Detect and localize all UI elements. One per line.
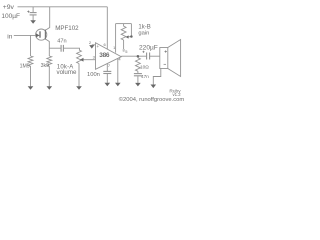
wire rail to pin 6 — [106, 7, 108, 49]
svg-text:10Ω: 10Ω — [140, 64, 149, 69]
wire R1 to ground — [30, 66, 32, 86]
wire gain pot bottom stub to pin 8 — [123, 40, 125, 49]
wire gate node down to R1 — [30, 35, 32, 56]
svg-text:2: 2 — [89, 40, 92, 45]
resistor R1 1M5 — [28, 56, 33, 66]
transistor Q1 MPF102 body — [36, 29, 47, 40]
wire speaker return — [153, 69, 161, 85]
wiper arrow VR2 — [126, 35, 129, 38]
svg-text:100n: 100n — [87, 72, 100, 78]
wire R2 to ground — [48, 66, 50, 86]
ground under pin 4 — [115, 83, 121, 87]
plus mark C4 — [142, 51, 144, 53]
resistor R3 10ohm — [136, 58, 141, 71]
wire C2 to volume pot — [64, 48, 80, 50]
wire output node down to R3 — [137, 56, 139, 58]
ground under VR1 — [76, 86, 82, 90]
wire source node horizontal — [49, 47, 61, 49]
wire Q1 source — [45, 39, 49, 48]
svg-text:100µF: 100µF — [1, 13, 20, 20]
wire C1 to ground — [32, 15, 34, 20]
svg-text:47n: 47n — [141, 74, 149, 79]
svg-text:+9v: +9v — [3, 4, 15, 11]
transistor Q1 channel bar — [44, 30, 46, 40]
svg-text:+: + — [97, 44, 100, 49]
potentiometer VR1 10k-A volume — [77, 50, 82, 64]
gate arrow Q1 — [36, 33, 40, 37]
speaker SP1 frame — [160, 48, 168, 69]
wire C5 to ground — [137, 76, 139, 83]
speaker terminal minus — [164, 63, 166, 65]
wire C4 to speaker — [150, 55, 160, 57]
svg-text:5: 5 — [125, 49, 128, 54]
svg-text:volume: volume — [57, 69, 78, 76]
wire pin 2 ground stub — [92, 44, 96, 46]
ground under C3 — [105, 83, 111, 87]
wire VR1 to ground — [78, 64, 80, 87]
node dot gain wiper — [130, 35, 133, 38]
svg-text:220µF: 220µF — [139, 44, 158, 51]
wire pin 7 stub — [106, 64, 108, 72]
svg-text:47n: 47n — [57, 39, 66, 45]
wiper arrow VR1 — [80, 58, 84, 62]
svg-text:6: 6 — [104, 42, 107, 47]
wire gain pot top stub — [123, 24, 125, 27]
wire R3 to C5 — [137, 71, 139, 73]
ground at pin 2 — [89, 45, 94, 49]
wire +9V rail — [18, 6, 108, 8]
svg-text:in: in — [7, 34, 12, 41]
svg-text:©2004, runoffgroove.com: ©2004, runoffgroove.com — [119, 96, 185, 103]
plus mark C1 — [27, 11, 29, 13]
svg-text:MPF102: MPF102 — [55, 25, 79, 32]
wire gain wiper vertical — [130, 24, 132, 36]
wire pin 4 to ground — [117, 58, 119, 83]
transistor Q1 gate bar — [39, 31, 41, 37]
speaker terminal plus — [165, 50, 167, 52]
svg-text:7: 7 — [108, 63, 111, 68]
wire rail to C1 — [32, 7, 34, 12]
resistor R2 3k9 — [47, 56, 52, 66]
wire gain loop top — [116, 23, 132, 25]
ground speaker return — [151, 85, 157, 89]
wire C3 to ground — [106, 74, 108, 83]
ground under C1 — [30, 20, 36, 23]
capacitor C3 100n plates — [103, 70, 111, 72]
wire input to gate — [14, 34, 40, 36]
wire pin 1 stub — [115, 24, 117, 53]
svg-text:3k9: 3k9 — [41, 63, 49, 69]
op-amp U1 LM386 triangle — [96, 43, 122, 70]
svg-text:gain: gain — [138, 31, 149, 37]
capacitor C5 47n plates — [134, 73, 142, 75]
wire gain wiper horizontal — [127, 36, 131, 38]
svg-text:386: 386 — [99, 52, 110, 59]
wire VR1 wiper to pin 3 — [83, 59, 96, 61]
ground under C5 — [135, 83, 141, 87]
ground under R2 — [47, 86, 53, 90]
capacitor C2 47n plates — [60, 45, 62, 52]
wire source node down to R2 — [48, 48, 50, 56]
svg-text:1M5: 1M5 — [20, 63, 30, 69]
wire rail to Q1 drain — [45, 7, 49, 30]
speaker SP1 cone — [168, 40, 181, 77]
capacitor C4 220uF plates — [146, 53, 148, 60]
wire output pin 5 — [121, 55, 146, 57]
potentiometer VR2 1k-B gain — [121, 26, 126, 40]
node dot output-zobel — [137, 55, 140, 58]
capacitor C1 100uF plates — [30, 12, 37, 14]
ground under R1 — [28, 86, 34, 90]
